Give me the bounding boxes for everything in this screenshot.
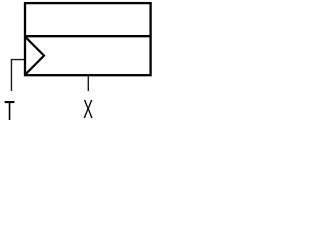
divider line (25, 35, 151, 37)
wire X output (87, 75, 89, 91)
svg-text:X: X (83, 96, 93, 124)
flip-flop U1 body (25, 3, 151, 75)
svg-text:T: T (4, 95, 15, 126)
wire T input (11, 60, 25, 91)
clock chevron (26, 37, 44, 74)
